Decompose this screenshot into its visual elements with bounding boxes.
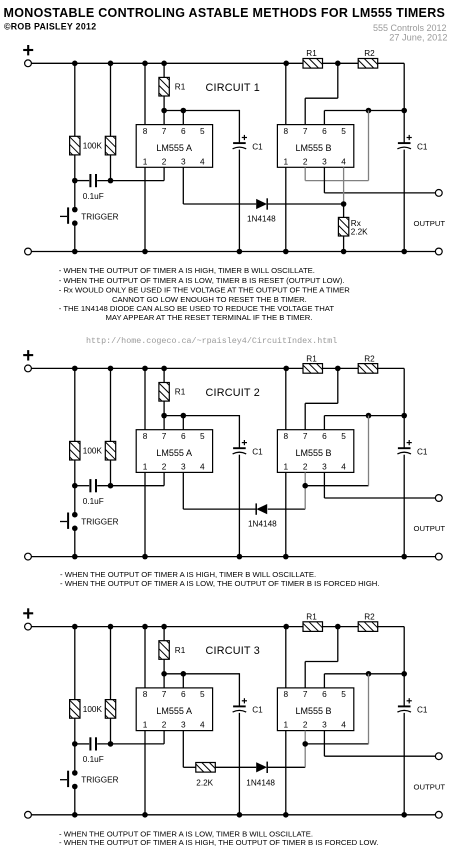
circuit 2: op timer U-A LM555 box: [136, 430, 212, 473]
svg-text:0.1uF: 0.1uF: [83, 755, 104, 764]
svg-text:- WHEN THE OUTPUT OF TIMER A I: - WHEN THE OUTPUT OF TIMER A IS HIGH, TI…: [59, 266, 315, 275]
circuit 3: node R1-A rail junction: [161, 624, 167, 630]
circuit 1: node Rx ground junction: [341, 249, 347, 255]
circuit 2: resistor R2 (timer B): [358, 364, 378, 374]
svg-text:R1: R1: [306, 49, 317, 58]
circuit 1: capacitor 0.1uF: [89, 174, 97, 187]
circuit 1: node trigger junction: [72, 178, 78, 184]
circuit 3: wire C1-B to ground: [403, 713, 405, 815]
svg-text:3: 3: [181, 156, 186, 166]
circuit 2: diode 1N4148: [256, 503, 267, 514]
svg-text:R2: R2: [364, 49, 375, 58]
svg-text:3: 3: [322, 461, 327, 471]
circuit 2: wire R1-A to rail: [163, 368, 165, 382]
svg-text:7: 7: [303, 431, 308, 441]
circuit 2: OUTPUT terminal (bottom): [435, 553, 442, 560]
circuit 1: node pin7-A/R1 junction: [161, 108, 167, 114]
circuit 1: diode 1N4148: [256, 198, 267, 209]
svg-text:R1: R1: [306, 354, 317, 363]
circuit 3: node trigger junction: [72, 741, 78, 747]
circuit 2: capacitor C1 (timer B): [397, 440, 411, 454]
svg-text:©ROB PAISLEY 2012: ©ROB PAISLEY 2012: [4, 22, 96, 32]
circuit 1: ground terminal (left): [25, 248, 32, 255]
circuit 1: node R1-A rail junction: [161, 61, 167, 67]
circuit 2: node trigger/ground junction: [72, 554, 78, 560]
svg-text:2: 2: [303, 156, 308, 166]
circuit 3: resistor R1 (timer B): [303, 622, 323, 632]
circuit 3: wire pin2-B horizontal: [305, 743, 368, 745]
circuit 3: wire pin 1 of U-A to ground: [144, 731, 146, 815]
circuit 1: V+ plus sign: [23, 45, 33, 55]
svg-text:2: 2: [303, 720, 308, 730]
circuit 3: wire trigger node down: [74, 744, 76, 771]
svg-text:8: 8: [143, 431, 148, 441]
circuit 2: op timer U-B LM555 box: [277, 430, 353, 473]
circuit 2: node C1-A ground junction: [237, 554, 243, 560]
circuit 1: OUTPUT terminal (bottom): [435, 248, 442, 255]
circuit 3: wire R1-A to pin 7: [163, 659, 165, 688]
circuit 3: resistor 100K: [70, 700, 80, 719]
circuit 1: wire C1-B top: [403, 111, 405, 143]
circuit 3: top rail wire: [31, 626, 303, 628]
circuit 1: bottom rail wire: [31, 251, 435, 253]
circuit 3: diode 1N4148: [256, 762, 267, 773]
circuit 2: node pin6/feedback junction: [366, 413, 372, 419]
svg-text:LM555 B: LM555 B: [295, 143, 331, 153]
circuit 2: node C1-B ground junction: [401, 554, 407, 560]
svg-text:1N4148: 1N4148: [246, 779, 275, 788]
svg-text:8: 8: [143, 689, 148, 699]
circuit 2: resistor 100K: [70, 441, 80, 460]
circuit 3: wire pin6-B horizontal: [324, 673, 404, 675]
circuit 3: wire pin 6 of U-B: [323, 674, 325, 688]
svg-text:R2: R2: [364, 354, 375, 363]
circuit 1: wire 100K to rail: [74, 63, 76, 136]
circuit 1: resistor R2 (timer B): [358, 59, 378, 69]
circuit 2: wire R2-B output: [378, 367, 405, 369]
circuit 3: wire 100K to trigger node: [74, 718, 76, 744]
svg-text:3: 3: [322, 156, 327, 166]
svg-text:7: 7: [162, 689, 167, 699]
svg-text:100K: 100K: [83, 447, 103, 456]
circuit 3: OUTPUT terminal (bottom): [435, 811, 442, 818]
svg-text:C1: C1: [252, 448, 263, 457]
circuit 3: wire pin2-A drop: [163, 731, 165, 744]
circuit 3: wire pin 8 of U-A to V+: [144, 627, 146, 688]
svg-text:LM555 A: LM555 A: [156, 143, 192, 153]
circuit 3: node trigger/ground junction: [72, 812, 78, 818]
svg-text:LM555 B: LM555 B: [295, 448, 331, 458]
circuit 1: node trigger/ground junction: [72, 249, 78, 255]
svg-text:7: 7: [303, 126, 308, 136]
svg-text:8: 8: [283, 126, 288, 136]
circuit 3: node pin1-B ground junction: [283, 812, 289, 818]
svg-text:1N4148: 1N4148: [248, 520, 277, 529]
circuit 1: capacitor C1 (timer B): [397, 135, 411, 149]
circuit 3: wire 100K to rail: [74, 627, 76, 700]
svg-text:- WHEN THE OUTPUT OF TIMER A I: - WHEN THE OUTPUT OF TIMER A IS HIGH, TI…: [60, 570, 316, 579]
svg-text:LM555 A: LM555 A: [156, 448, 192, 458]
circuit 3: wire diode to riser: [268, 766, 306, 768]
circuit 1: node pin8-A rail junction: [142, 61, 148, 67]
circuit 1: wire pin 8 of U-A to V+: [144, 63, 146, 124]
circuit 3: U-B pin numbers bottom: [283, 720, 346, 730]
circuit 1: wire R1/R2 junction down: [337, 63, 339, 98]
circuit 3: op timer U-B LM555 box: [277, 688, 353, 731]
circuit 3: wire R1-B to R2-B: [323, 626, 359, 628]
circuit 2: wire pin 3 of U-B down: [323, 472, 325, 498]
svg-text:555 Controls 2012: 555 Controls 2012: [373, 23, 447, 33]
circuit 3: wire C1-A top: [238, 673, 240, 706]
svg-text:6: 6: [181, 431, 186, 441]
svg-text:- WHEN THE OUTPUT OF TIMER A I: - WHEN THE OUTPUT OF TIMER A IS HIGH, TH…: [59, 838, 379, 847]
circuit 3: resistor 100K pullup (pin 2): [105, 700, 115, 719]
svg-text:1: 1: [283, 461, 288, 471]
circuit 2: wire pin2-A drop: [163, 472, 165, 485]
circuit 3: OUTPUT terminal (top): [435, 753, 442, 760]
svg-text:8: 8: [283, 689, 288, 699]
circuit 1: wire pin 1 of U-A to ground: [144, 167, 146, 251]
svg-text:TRIGGER: TRIGGER: [81, 776, 118, 785]
circuit 1: U-B pin numbers top: [283, 126, 346, 136]
svg-text:CIRCUIT 2: CIRCUIT 2: [206, 387, 260, 399]
circuit 3: wire diode riser to pin2 node (gray): [304, 744, 306, 767]
circuit 1: node diode/Rx/reset junction: [341, 201, 347, 207]
circuit 3: U-B pin numbers top: [283, 689, 346, 699]
circuit 3: node C1-A ground junction: [237, 812, 243, 818]
svg-text:CIRCUIT 3: CIRCUIT 3: [206, 645, 260, 657]
circuit 1: wire pin 2 of U-B (gray): [304, 167, 306, 180]
svg-text:- THE 1N4148 DIODE CAN ALSO BE: - THE 1N4148 DIODE CAN ALSO BE USED TO R…: [59, 304, 335, 313]
svg-text:MONOSTABLE CONTROLING ASTABLE: MONOSTABLE CONTROLING ASTABLE METHODS FO…: [4, 6, 446, 20]
svg-text:- WHEN THE OUTPUT OF TIMER A I: - WHEN THE OUTPUT OF TIMER A IS LOW, THE…: [60, 579, 380, 588]
circuit 1: node C1-A ground junction: [237, 249, 243, 255]
svg-text:100K: 100K: [83, 142, 103, 151]
circuit 2: wire pin3-A to diode: [183, 508, 256, 510]
circuit 1: wire pin 3 of U-B down: [323, 167, 325, 193]
circuit 2: node pin8-B rail junction: [283, 366, 289, 372]
circuit 1: pushbutton TRIGGER: [60, 207, 78, 226]
circuit 2: wire output horizontal: [324, 497, 435, 499]
svg-text:- WHEN THE OUTPUT OF TIMER A I: - WHEN THE OUTPUT OF TIMER A IS LOW, TIM…: [59, 276, 345, 285]
circuit 1: U-A pin numbers bottom: [143, 156, 205, 166]
circuit 2: node pullup/rail junction: [108, 366, 114, 372]
circuit 1: wire pullup resistor to rail: [110, 63, 112, 136]
circuit 3: wire trigger node to cap: [75, 743, 89, 745]
circuit 3: U-A pin numbers top: [143, 689, 205, 699]
circuit 1: node pin1-B ground junction: [283, 249, 289, 255]
svg-text:C1: C1: [252, 706, 263, 715]
circuit 1: wire feedback riser 2-6 (gray): [368, 111, 370, 181]
circuit 1: wire R1-B to R2-B: [323, 62, 359, 64]
circuit 1: wire C1-A top: [238, 110, 240, 143]
circuit 2: wire C1-B top: [403, 416, 405, 448]
circuit 1: OUTPUT terminal (top): [435, 190, 442, 197]
circuit 2: V+ terminal: [25, 365, 32, 372]
circuit 2: node R1-A rail junction: [161, 366, 167, 372]
circuit 3: node R1/R2 junction: [335, 624, 341, 630]
svg-text:8: 8: [283, 431, 288, 441]
circuit 3: wire cap to pin 2 of U-A: [97, 743, 164, 745]
circuit 3: wire output horizontal: [324, 755, 435, 757]
svg-text:1: 1: [143, 720, 148, 730]
circuit 2: wire pin 1 of U-A to ground: [144, 472, 146, 556]
svg-text:4: 4: [200, 720, 205, 730]
circuit 2: wire pin 8 of U-B to V+: [285, 368, 287, 429]
circuit 2: wire 100K to trigger node: [74, 460, 76, 486]
circuit 3: node pin6/C1-B junction: [401, 671, 407, 677]
circuit 1: resistor 100K pullup (pin 2): [105, 136, 115, 155]
circuit 3: op timer U-A LM555 box: [136, 688, 212, 731]
circuit 3: wire pins 6-7 A horizontal: [164, 673, 239, 675]
circuit 2: wire cap to pin 2 of U-A: [97, 485, 164, 487]
circuit 3: wire pin3-A to 2.2K: [183, 766, 196, 768]
circuit 1: wire C1-A to ground: [238, 150, 240, 252]
svg-text:5: 5: [341, 431, 346, 441]
svg-text:1N4148: 1N4148: [247, 215, 276, 224]
circuit 1: node pin1-A ground junction: [142, 249, 148, 255]
circuit 2: wire trigger to ground rail: [74, 531, 76, 557]
circuit 2: node pin8-A rail junction: [142, 366, 148, 372]
circuit 3: wire pin 3 of U-A down: [182, 731, 184, 768]
circuit 1: wire R1-A to pin 7: [163, 96, 165, 125]
svg-text:3: 3: [181, 720, 186, 730]
circuit 3: wire R2-B output: [378, 626, 405, 628]
circuit 2: wire pin 8 of U-A to V+: [144, 368, 146, 429]
circuit 2: node pin6-A junction: [181, 413, 187, 419]
svg-text:CIRCUIT 1: CIRCUIT 1: [206, 82, 260, 94]
circuit 3: wire 2.2K to diode: [215, 766, 256, 768]
svg-text:2: 2: [162, 156, 167, 166]
svg-text:2.2K: 2.2K: [351, 228, 368, 237]
circuit 3: wire pin 6 of U-A: [182, 674, 184, 688]
circuit 2: V+ plus sign: [23, 350, 33, 360]
circuit 3: node diode/pin2 junction: [302, 741, 308, 747]
circuit 3: wire C1-A to ground: [238, 713, 240, 815]
circuit 2: capacitor 0.1uF: [89, 479, 97, 492]
circuit 3: wire R2 to pin6 node: [403, 627, 405, 674]
circuit 2: ground terminal (left): [25, 553, 32, 560]
svg-text:2.2K: 2.2K: [196, 779, 213, 788]
svg-text:5: 5: [200, 689, 205, 699]
circuit 2: wire R1-A to pin 7: [163, 401, 165, 430]
svg-text:R2: R2: [364, 613, 375, 622]
circuit 1: wire R2-B output: [378, 62, 405, 64]
svg-text:MAY APPEAR AT THE RESET TERMIN: MAY APPEAR AT THE RESET TERMINAL IF THE …: [106, 313, 313, 322]
svg-text:C1: C1: [417, 706, 428, 715]
circuit 2: node pin7-A/R1 junction: [161, 413, 167, 419]
svg-text:8: 8: [143, 126, 148, 136]
circuit 1: op timer U-A LM555 box: [136, 125, 212, 168]
circuit 2: top rail wire: [31, 367, 303, 369]
circuit 2: wire pin 2 of U-B (gray): [304, 472, 306, 485]
svg-text:1: 1: [283, 156, 288, 166]
circuit 1: capacitor C1 (timer A): [233, 135, 247, 149]
circuit 1: wire C1-B to ground: [403, 150, 405, 252]
circuit 2: wire diode to riser: [268, 508, 306, 510]
circuit 1: wire pin3-A to diode: [183, 203, 256, 205]
circuit 1: resistor 100K: [70, 136, 80, 155]
circuit 3: node pin8-B rail junction: [283, 624, 289, 630]
svg-text:27 June, 2012: 27 June, 2012: [389, 33, 447, 43]
circuit 2: U-B pin numbers bottom: [283, 461, 346, 471]
svg-text:4: 4: [200, 156, 205, 166]
circuit 1: node C1-B ground junction: [401, 249, 407, 255]
circuit 1: wire pullup to pin2 node: [110, 155, 112, 181]
circuit 3: U-A pin numbers bottom: [143, 720, 205, 730]
circuit 1: wire pin 6 of U-A: [182, 111, 184, 125]
circuit 2: U-A pin numbers bottom: [143, 461, 205, 471]
circuit 1: wire R1-A to rail: [163, 63, 165, 77]
svg-text:R1: R1: [175, 646, 186, 655]
circuit 1: wire pin 1 of U-B to ground: [285, 167, 287, 251]
circuit 3: wire pin 8 of U-B to V+: [285, 627, 287, 688]
svg-text:LM555 B: LM555 B: [295, 706, 331, 716]
circuit 1: wire pin 3 of U-A down: [182, 167, 184, 204]
circuit 1: wire pin2-B horizontal: [305, 180, 368, 182]
svg-text:100K: 100K: [83, 705, 103, 714]
circuit 1: node pin6-A junction: [181, 108, 187, 114]
circuit 3: wire C1-B top: [403, 674, 405, 706]
svg-text:C1: C1: [252, 142, 263, 151]
circuit 1: wire Rx to ground: [343, 236, 345, 252]
svg-text:6: 6: [322, 689, 327, 699]
circuit 2: wire 100K to rail: [74, 368, 76, 441]
circuit 1: top rail wire: [31, 62, 303, 64]
circuit 3: wire pin 3 of U-B down: [323, 731, 325, 757]
circuit 2: resistor 100K pullup (pin 2): [105, 441, 115, 460]
circuit 2: wire pullup resistor to rail: [110, 368, 112, 441]
circuit 2: wire pin 3 of U-A down: [182, 472, 184, 509]
svg-text:http://home.cogeco.ca/~rpaisle: http://home.cogeco.ca/~rpaisley4/Circuit…: [86, 336, 337, 346]
circuit 1: wire output horizontal: [324, 192, 435, 194]
circuit 2: wire R2 to pin6 node: [403, 368, 405, 415]
circuit 2: wire diode riser to pin2 node (gray): [304, 486, 306, 509]
circuit 2: node pin1-B ground junction: [283, 554, 289, 560]
svg-text:CANNOT GO LOW ENOUGH TO RESET: CANNOT GO LOW ENOUGH TO RESET THE B TIME…: [112, 295, 307, 304]
circuit 2: wire pin2-B horizontal: [305, 485, 368, 487]
svg-text:R1: R1: [175, 388, 186, 397]
svg-text:7: 7: [162, 431, 167, 441]
circuit 1: wire pin7-B branch horizontal: [305, 97, 338, 99]
circuit 2: node R1/R2 junction: [335, 366, 341, 372]
circuit 3: node pin8-A rail junction: [142, 624, 148, 630]
svg-text:4: 4: [341, 156, 346, 166]
circuit 2: wire trigger node to cap: [75, 485, 89, 487]
circuit 1: wire pin 4 of U-B reset (gray): [343, 167, 345, 204]
svg-text:4: 4: [341, 461, 346, 471]
circuit 2: node pin2-A junction: [108, 483, 114, 489]
circuit 1: wire 100K to trigger node: [74, 155, 76, 181]
svg-text:6: 6: [181, 126, 186, 136]
circuit 1: wire R2 to pin6 node: [403, 63, 405, 110]
circuit 3: node C1-B ground junction: [401, 812, 407, 818]
circuit 2: wire feedback riser 2-6 (gray): [368, 416, 370, 486]
svg-text:OUTPUT: OUTPUT: [414, 524, 446, 533]
svg-text:4: 4: [341, 720, 346, 730]
svg-text:OUTPUT: OUTPUT: [414, 782, 446, 791]
svg-text:5: 5: [200, 126, 205, 136]
svg-text:4: 4: [200, 461, 205, 471]
svg-text:6: 6: [322, 431, 327, 441]
circuit 1: wire trigger to ground rail: [74, 226, 76, 252]
circuit 2: pushbutton TRIGGER: [60, 512, 78, 531]
svg-text:C1: C1: [417, 142, 428, 151]
circuit 2: node pin1-A ground junction: [142, 554, 148, 560]
svg-text:2: 2: [162, 720, 167, 730]
circuit 3: wire pullup to pin2 node: [110, 718, 112, 744]
svg-text:2: 2: [303, 461, 308, 471]
circuit 2: wire pin 7 of U-B: [304, 403, 306, 429]
svg-text:5: 5: [341, 126, 346, 136]
svg-text:TRIGGER: TRIGGER: [81, 518, 118, 527]
svg-text:2: 2: [162, 461, 167, 471]
circuit 3: resistor R2 (timer B): [358, 622, 378, 632]
circuit 1: wire pin 6 of U-B: [323, 111, 325, 125]
circuit 1: node V+/100K junction: [72, 61, 78, 67]
svg-text:7: 7: [303, 689, 308, 699]
svg-text:- Rx WOULD ONLY BE USED IF THE: - Rx WOULD ONLY BE USED IF THE VOLTAGE A…: [59, 286, 350, 295]
circuit 2: wire C1-A top: [238, 415, 240, 448]
circuit 2: node pin6/C1-B junction: [401, 413, 407, 419]
circuit 3: node pin6/feedback junction: [366, 671, 372, 677]
circuit 2: node trigger junction: [72, 483, 78, 489]
circuit 3: bottom rail wire: [31, 814, 435, 816]
svg-text:6: 6: [322, 126, 327, 136]
circuit 3: wire pin 2 of U-B (gray): [304, 731, 306, 744]
svg-text:C1: C1: [417, 448, 428, 457]
circuit 1: node R1/R2 junction: [335, 61, 341, 67]
circuit 3: wire pin 1 of U-B to ground: [285, 731, 287, 815]
circuit 3: wire feedback riser 2-6 (gray): [368, 674, 370, 744]
circuit 1: resistor R1 (timer B): [303, 59, 323, 69]
circuit 2: node V+/100K junction: [72, 366, 78, 372]
svg-text:7: 7: [162, 126, 167, 136]
circuit 2: wire pin 1 of U-B to ground: [285, 472, 287, 556]
circuit 1: node pin6/C1-B junction: [401, 108, 407, 114]
svg-text:Rx: Rx: [351, 219, 361, 228]
svg-text:5: 5: [200, 431, 205, 441]
circuit 3: wire pullup resistor to rail: [110, 627, 112, 700]
circuit 1: wire trigger node down: [74, 181, 76, 208]
circuit 2: U-B pin numbers top: [283, 431, 346, 441]
circuit 3: wire trigger to ground rail: [74, 789, 76, 815]
circuit 1: wire pin 7 of U-B: [304, 98, 306, 124]
circuit 3: V+ plus sign: [23, 608, 33, 618]
circuit 2: wire pin 6 of U-B: [323, 416, 325, 430]
circuit 3: ground terminal (left): [25, 811, 32, 818]
circuit 2: wire C1-A to ground: [238, 455, 240, 557]
svg-text:1: 1: [283, 720, 288, 730]
circuit 2: wire C1-B to ground: [403, 455, 405, 557]
circuit 3: resistor 2.2K (series): [196, 763, 216, 773]
circuit 3: node pullup/rail junction: [108, 624, 114, 630]
circuit 3: node pin1-A ground junction: [142, 812, 148, 818]
circuit 2: bottom rail wire: [31, 556, 435, 558]
circuit 1: wire diode to reset node: [268, 203, 344, 205]
circuit 3: pushbutton TRIGGER: [60, 770, 78, 789]
svg-text:TRIGGER: TRIGGER: [81, 212, 118, 221]
svg-text:5: 5: [341, 689, 346, 699]
circuit 1: node pullup/rail junction: [108, 61, 114, 67]
circuit 2: wire pullup to pin2 node: [110, 460, 112, 486]
circuit 3: wire pin 7 of U-B: [304, 662, 306, 688]
circuit 3: capacitor 0.1uF: [89, 737, 97, 750]
circuit 2: wire pin7-B branch horizontal: [305, 402, 338, 404]
circuit 1: U-A pin numbers top: [143, 126, 205, 136]
svg-text:3: 3: [181, 461, 186, 471]
circuit 3: node V+/100K junction: [72, 624, 78, 630]
